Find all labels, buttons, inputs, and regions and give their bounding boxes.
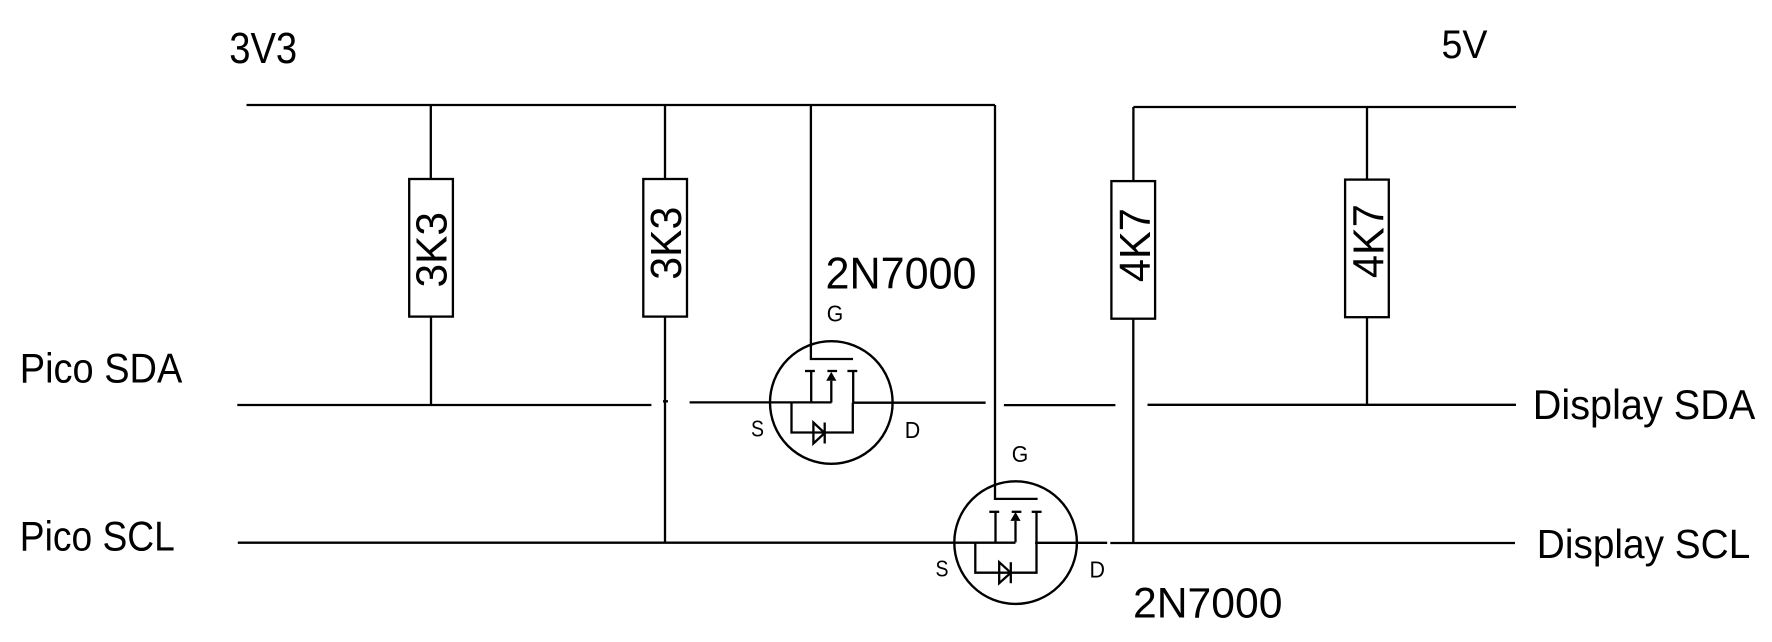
svg-text:G: G xyxy=(827,300,844,326)
resistor R1 (3K3, 3V3 to Pico SDA) xyxy=(409,105,453,405)
wire: Pico SDA xyxy=(237,404,651,406)
svg-text:4K7: 4K7 xyxy=(1111,208,1160,282)
svg-text:2N7000: 2N7000 xyxy=(1133,581,1283,628)
svg-text:Display SDA: Display SDA xyxy=(1533,381,1756,428)
svg-text:3K3: 3K3 xyxy=(642,207,691,280)
svg-text:G: G xyxy=(1012,441,1029,467)
wire: 5V rail xyxy=(1133,106,1516,108)
svg-text:D: D xyxy=(905,417,921,443)
wire: Pico SDA to Q1 source xyxy=(690,401,832,403)
svg-text:D: D xyxy=(1090,557,1106,583)
svg-text:Pico SDA: Pico SDA xyxy=(20,345,183,392)
wire: Q2 drain to Display SCL xyxy=(1035,542,1107,544)
transistor Q1 (2N7000, SDA) xyxy=(770,341,893,464)
svg-text:Display SCL: Display SCL xyxy=(1537,521,1751,567)
svg-text:Pico SCL: Pico SCL xyxy=(20,513,175,560)
resistor R3 (4K7, 5V to Display SCL) xyxy=(1111,107,1155,543)
resistor R4 (4K7, 5V to Display SDA) xyxy=(1345,107,1389,405)
wire: Display SDA segment right xyxy=(1148,404,1517,406)
wire: stub at R2 crossing on SDA xyxy=(663,400,668,402)
resistor R2 (3K3, 3V3 to Pico SCL) xyxy=(643,105,687,543)
wire: 3V3 rail xyxy=(247,104,996,106)
svg-text:3V3: 3V3 xyxy=(229,24,297,73)
svg-text:S: S xyxy=(936,556,949,582)
wire: 3V3 rail to Q2 gate xyxy=(995,105,1038,499)
svg-text:S: S xyxy=(751,416,764,442)
svg-text:4K7: 4K7 xyxy=(1345,204,1394,278)
wire: 3V3 rail to Q1 gate xyxy=(811,105,853,359)
svg-text:3K3: 3K3 xyxy=(408,212,457,287)
wire: Display SDA segment between Q2 gate and R3 xyxy=(1004,404,1116,406)
svg-text:2N7000: 2N7000 xyxy=(826,250,977,299)
svg-text:5V: 5V xyxy=(1442,23,1488,67)
transistor Q2 (2N7000, SCL) xyxy=(954,481,1077,604)
wire: Display SCL xyxy=(1110,542,1515,544)
wire: Pico SCL xyxy=(238,542,1016,544)
wire: Q1 drain to Display SDA xyxy=(852,402,985,404)
